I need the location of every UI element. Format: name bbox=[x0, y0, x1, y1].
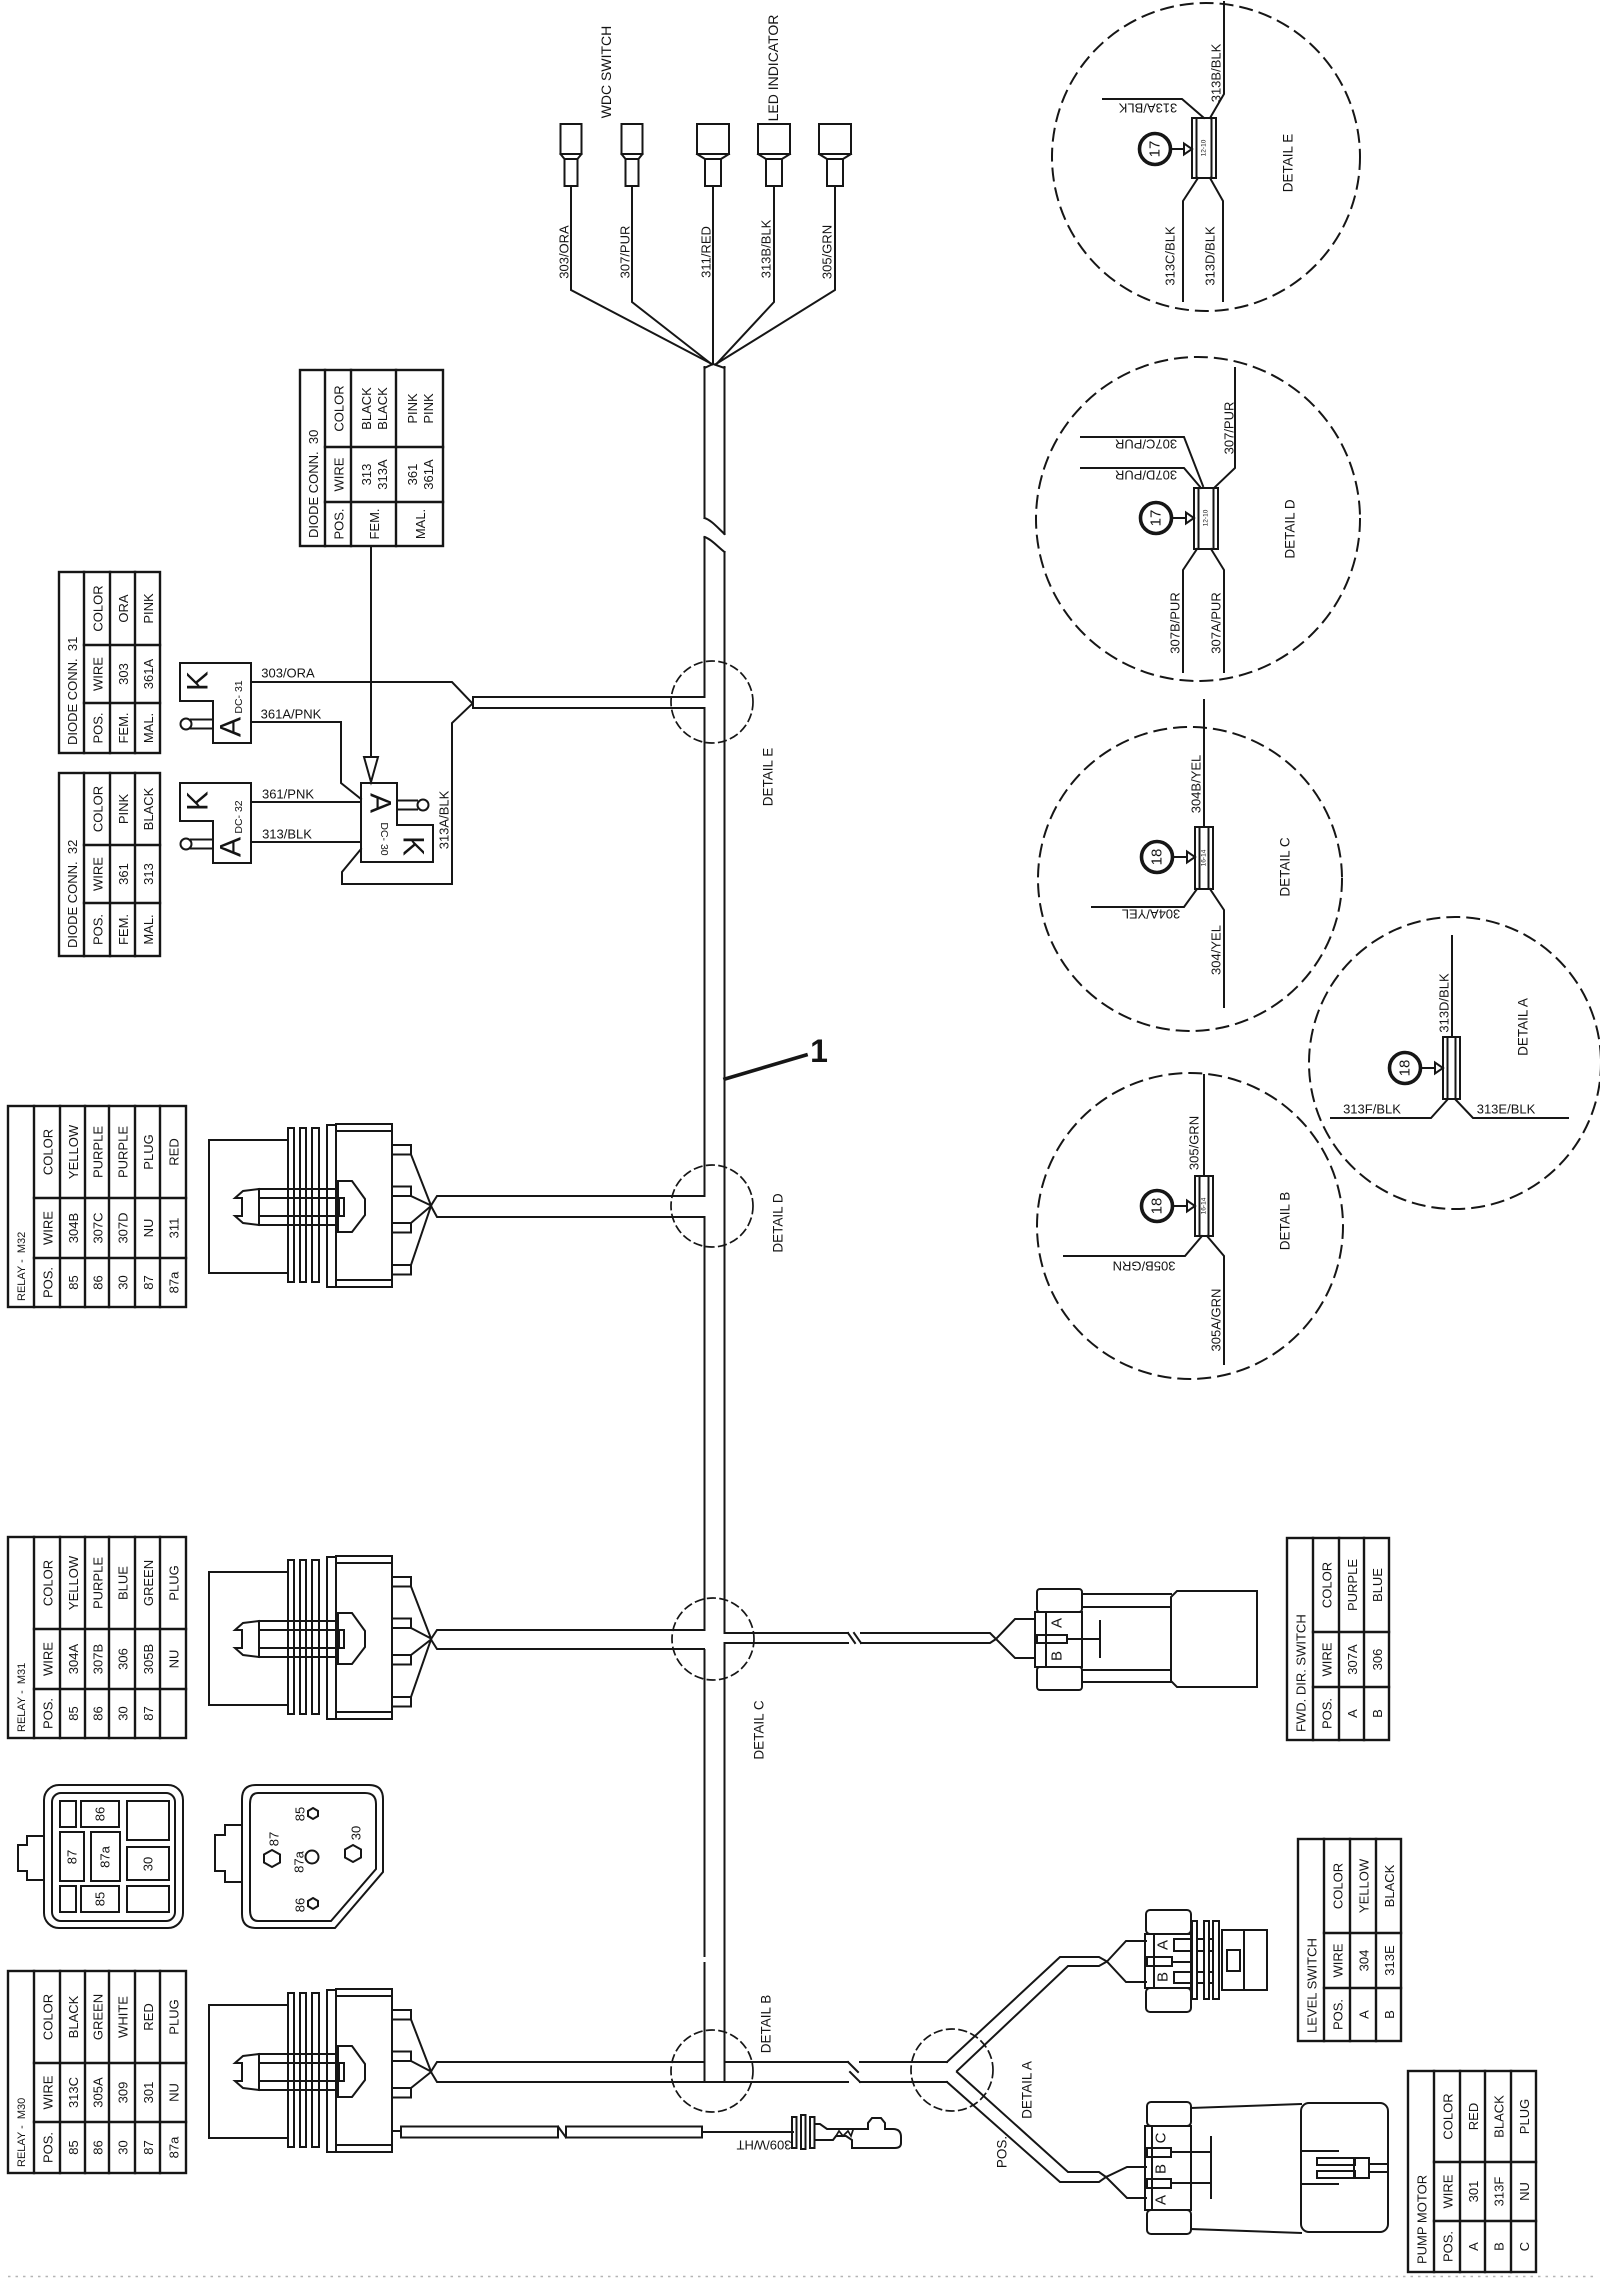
svg-text:306: 306 bbox=[1370, 1649, 1385, 1671]
splice 12-10 (detail E) bbox=[1192, 118, 1216, 178]
V-split into pump motor pins bbox=[1106, 2167, 1146, 2198]
svg-text:313: 313 bbox=[141, 863, 156, 885]
splice 16-14 (detail B) bbox=[1195, 1176, 1213, 1236]
wires from relay M31 to branch point bbox=[392, 1577, 431, 1707]
label DETAIL C (trunk) bbox=[752, 1700, 767, 1760]
svg-text:30: 30 bbox=[349, 1826, 364, 1840]
svg-text:COLOR: COLOR bbox=[41, 1129, 56, 1175]
connector terminal 311/RED bbox=[697, 124, 729, 186]
wire 305/GRN to trunk bbox=[716, 186, 835, 364]
label 313D/BLK (detail E) bbox=[1203, 226, 1218, 286]
svg-text:WDC SWITCH: WDC SWITCH bbox=[598, 26, 614, 119]
svg-text:361/PNK: 361/PNK bbox=[262, 787, 314, 802]
svg-text:RELAY - M31: RELAY - M31 bbox=[16, 1663, 28, 1732]
svg-text:WIRE: WIRE bbox=[1320, 1642, 1335, 1676]
diode connector DC-31 bbox=[180, 663, 251, 743]
relay connector M32 (side view) bbox=[209, 1124, 392, 1287]
svg-text:313B/BLK: 313B/BLK bbox=[759, 219, 774, 278]
svg-text:PURPLE: PURPLE bbox=[91, 1126, 106, 1178]
svg-text:COLOR: COLOR bbox=[1441, 2093, 1456, 2139]
svg-text:307A/PUR: 307A/PUR bbox=[1209, 592, 1224, 653]
svg-text:A: A bbox=[364, 793, 397, 813]
svg-text:305B/GRN: 305B/GRN bbox=[1113, 1259, 1176, 1274]
svg-text:307D: 307D bbox=[116, 1212, 131, 1243]
svg-text:304A/YEL: 304A/YEL bbox=[1122, 907, 1181, 922]
svg-text:WIRE: WIRE bbox=[1331, 1943, 1346, 1977]
svg-text:18: 18 bbox=[1397, 1060, 1414, 1077]
relay connector M31 (side view) bbox=[209, 1556, 392, 1719]
svg-text:313: 313 bbox=[359, 464, 374, 486]
svg-text:303/ORA: 303/ORA bbox=[261, 666, 315, 681]
wire 313F/BLK (detail A) bbox=[1331, 1099, 1448, 1118]
callout leader line 1 bbox=[725, 1055, 806, 1079]
terminal pin of DC-30 bbox=[397, 800, 429, 811]
svg-text:304/YEL: 304/YEL bbox=[1209, 925, 1224, 975]
wire 307A/PUR (detail D) bbox=[1211, 549, 1224, 672]
svg-text:DETAIL C: DETAIL C bbox=[1278, 837, 1293, 897]
svg-text:COLOR: COLOR bbox=[332, 385, 347, 431]
svg-text:GREEN: GREEN bbox=[141, 1560, 156, 1606]
trunk break symbol (upper) bbox=[705, 518, 725, 552]
svg-text:85: 85 bbox=[66, 2140, 81, 2154]
wire 307/PUR (detail D) bbox=[1214, 368, 1235, 488]
svg-text:WIRE: WIRE bbox=[91, 657, 106, 691]
svg-text:301: 301 bbox=[141, 2082, 156, 2104]
svg-text:LEVEL SWITCH: LEVEL SWITCH bbox=[1305, 1938, 1320, 2033]
harness trunk (double line with breaks) bbox=[705, 364, 725, 2082]
svg-text:K: K bbox=[182, 671, 215, 691]
svg-text:WHITE: WHITE bbox=[116, 1996, 131, 2038]
svg-text:RED: RED bbox=[141, 2003, 156, 2030]
svg-text:361A/PNK: 361A/PNK bbox=[261, 707, 322, 722]
svg-text:PURPLE: PURPLE bbox=[116, 1126, 131, 1178]
svg-text:A: A bbox=[215, 837, 248, 857]
label WDC SWITCH bbox=[598, 26, 614, 119]
svg-text:87: 87 bbox=[65, 1850, 80, 1864]
svg-text:DETAIL D: DETAIL D bbox=[1283, 499, 1298, 559]
connector terminal 313B/BLK (LED indicator) bbox=[758, 124, 790, 186]
svg-text:87a: 87a bbox=[167, 1271, 182, 1293]
diode connector DC-32 bbox=[180, 783, 251, 863]
svg-text:A: A bbox=[215, 717, 248, 737]
svg-text:DETAIL E: DETAIL E bbox=[1281, 134, 1296, 193]
V-split into level switch pins bbox=[1107, 1941, 1146, 1982]
wires fwd dir switch to boot bbox=[1082, 1594, 1171, 1682]
junction circle DETAIL B (trunk) bbox=[671, 2030, 753, 2112]
svg-text:311: 311 bbox=[167, 1218, 182, 1239]
label 313B/BLK bbox=[759, 219, 774, 278]
svg-text:PUMP MOTOR: PUMP MOTOR bbox=[1415, 2175, 1430, 2264]
svg-text:FEM.: FEM. bbox=[116, 914, 131, 945]
V-split into fwd dir switch pins bbox=[996, 1619, 1035, 1658]
boot of fwd dir switch connector bbox=[1171, 1591, 1257, 1687]
svg-text:NU: NU bbox=[141, 1219, 156, 1238]
svg-text:POS.: POS. bbox=[1331, 1999, 1346, 2030]
arrow 18 to splice (detail B) bbox=[1173, 1201, 1196, 1212]
svg-text:C: C bbox=[1517, 2242, 1532, 2251]
svg-text:309/WHT: 309/WHT bbox=[736, 2138, 791, 2153]
label 307A/PUR (detail D) bbox=[1209, 592, 1224, 653]
svg-text:FEM.: FEM. bbox=[116, 712, 131, 743]
svg-text:DETAIL A: DETAIL A bbox=[1020, 2061, 1035, 2119]
svg-text:87a: 87a bbox=[167, 2136, 182, 2158]
svg-text:1: 1 bbox=[810, 1033, 828, 1069]
terminal pin of DC-32 bbox=[181, 839, 214, 850]
table RELAY - M32 bbox=[8, 1106, 186, 1307]
svg-text:361: 361 bbox=[116, 863, 131, 885]
svg-text:307A: 307A bbox=[1345, 1644, 1360, 1675]
svg-text:DIODE CONN. 30: DIODE CONN. 30 bbox=[306, 430, 321, 538]
svg-text:BLUE: BLUE bbox=[116, 1566, 131, 1600]
label 311/RED bbox=[699, 226, 714, 278]
svg-text:313F/BLK: 313F/BLK bbox=[1343, 1102, 1401, 1117]
svg-text:PINK: PINK bbox=[421, 393, 436, 424]
label 304A/YEL (detail C) bbox=[1122, 907, 1181, 922]
svg-text:304A: 304A bbox=[66, 1643, 81, 1674]
svg-text:POS.: POS. bbox=[1441, 2231, 1456, 2262]
label 313B/BLK (detail E) bbox=[1209, 43, 1224, 102]
table PUMP MOTOR bbox=[1408, 2071, 1536, 2272]
svg-text:A: A bbox=[1049, 1618, 1066, 1628]
svg-text:87: 87 bbox=[267, 1832, 282, 1846]
table RELAY - M31 bbox=[8, 1537, 186, 1738]
svg-text:DETAIL D: DETAIL D bbox=[771, 1193, 786, 1253]
wire 304/YEL (detail C) bbox=[1210, 889, 1224, 1007]
svg-text:B: B bbox=[1049, 1651, 1066, 1661]
svg-text:86: 86 bbox=[91, 1706, 106, 1720]
svg-text:313E/BLK: 313E/BLK bbox=[1477, 1102, 1536, 1117]
svg-text:YELLOW: YELLOW bbox=[1357, 1858, 1372, 1913]
label DETAIL B (circle) bbox=[1278, 1192, 1293, 1251]
label 313/BLK bbox=[262, 827, 312, 842]
svg-text:POS.: POS. bbox=[41, 1267, 56, 1298]
svg-text:87a: 87a bbox=[292, 1850, 307, 1872]
table DIODE CONN. 30 bbox=[300, 370, 443, 546]
svg-text:307C/PUR: 307C/PUR bbox=[1115, 437, 1177, 452]
svg-text:86: 86 bbox=[91, 1275, 106, 1289]
relay connector M30 (side view) bbox=[209, 1989, 392, 2152]
wire 305A/GRN (detail B) bbox=[1207, 1236, 1224, 1364]
svg-text:304B/YEL: 304B/YEL bbox=[1189, 755, 1204, 814]
connector terminal 307/PUR (WDC switch) bbox=[622, 124, 643, 186]
label LED INDICATOR bbox=[765, 15, 781, 122]
wire 313/BLK from DC-32 to DC-30 bbox=[251, 841, 361, 843]
svg-text:LED INDICATOR: LED INDICATOR bbox=[765, 15, 781, 122]
svg-text:313E: 313E bbox=[1382, 1945, 1397, 1976]
ring terminal on 309/WHT bbox=[792, 2115, 901, 2149]
wire 313B/BLK to trunk bbox=[716, 186, 774, 365]
wire 303/ORA to trunk bbox=[571, 186, 712, 364]
svg-text:BLUE: BLUE bbox=[1370, 1568, 1385, 1602]
label 303/ORA bbox=[557, 225, 572, 279]
svg-text:WIRE: WIRE bbox=[41, 1211, 56, 1245]
svg-text:305/GRN: 305/GRN bbox=[1187, 1116, 1202, 1170]
svg-text:A: A bbox=[1153, 2195, 1170, 2205]
callout circle 17 (detail E) bbox=[1140, 134, 1171, 165]
branch wire relay M32 to DETAIL D junction bbox=[431, 1196, 704, 1217]
wires from relay M30 to branch point bbox=[392, 2010, 431, 2098]
label 305A/GRN (detail B) bbox=[1209, 1289, 1224, 1352]
detail circle E (dashed) bbox=[1052, 3, 1360, 311]
svg-text:306: 306 bbox=[116, 1648, 131, 1670]
label DETAIL D (trunk) bbox=[771, 1193, 786, 1253]
svg-text:MAL.: MAL. bbox=[141, 914, 156, 944]
svg-text:B: B bbox=[1153, 2164, 1170, 2174]
svg-text:30: 30 bbox=[116, 1706, 131, 1720]
callout circle 17 (detail D) bbox=[1141, 503, 1172, 534]
svg-text:NU: NU bbox=[1517, 2182, 1532, 2201]
svg-text:313B/BLK: 313B/BLK bbox=[1209, 43, 1224, 102]
svg-text:B: B bbox=[1370, 1709, 1385, 1718]
svg-text:WIRE: WIRE bbox=[1441, 2174, 1456, 2208]
svg-text:MAL.: MAL. bbox=[413, 509, 428, 539]
svg-text:MAL.: MAL. bbox=[141, 713, 156, 743]
svg-text:WIRE: WIRE bbox=[91, 857, 106, 891]
svg-text:307B: 307B bbox=[91, 1644, 106, 1674]
svg-text:307/PUR: 307/PUR bbox=[618, 226, 633, 279]
svg-text:A: A bbox=[1345, 1709, 1360, 1718]
wire 313B/BLK (detail E) bbox=[1210, 2, 1224, 118]
wire 361A/PNK from DC-31 to DC-30 bbox=[251, 722, 361, 799]
svg-text:RELAY - M30: RELAY - M30 bbox=[16, 2098, 28, 2167]
label 309/WHT bbox=[736, 2138, 791, 2153]
svg-text:305B: 305B bbox=[141, 1644, 156, 1674]
svg-text:COLOR: COLOR bbox=[91, 786, 106, 832]
svg-text:PINK: PINK bbox=[116, 794, 131, 825]
svg-text:WIRE: WIRE bbox=[332, 457, 347, 491]
branch wire relay M30 to DETAIL B junction bbox=[431, 2062, 848, 2082]
label 313E/BLK (detail A) bbox=[1477, 1102, 1536, 1117]
junction circle DETAIL C bbox=[672, 1598, 754, 1680]
label POS. bbox=[995, 2136, 1010, 2168]
wire 313C/BLK (detail E) bbox=[1183, 178, 1198, 301]
svg-text:DC- 31: DC- 31 bbox=[233, 680, 245, 713]
svg-text:RED: RED bbox=[1466, 2103, 1481, 2130]
wire 313A/BLK from DC-30 to junction bbox=[342, 704, 472, 884]
wire 313A/BLK (detail E) bbox=[1103, 99, 1204, 118]
splice (detail A) bbox=[1443, 1037, 1460, 1099]
svg-text:18: 18 bbox=[1149, 1198, 1166, 1215]
svg-text:PINK: PINK bbox=[405, 393, 420, 424]
svg-text:313C: 313C bbox=[66, 2077, 81, 2108]
arrow 18 to splice (detail A) bbox=[1421, 1063, 1444, 1074]
branch wire DETAIL B junction to Y-split (with break) bbox=[725, 2062, 947, 2082]
label 307D/PUR (detail D) bbox=[1115, 468, 1177, 483]
svg-text:85: 85 bbox=[66, 1275, 81, 1289]
callout circle 18 (detail C) bbox=[1142, 842, 1173, 873]
svg-text:WIRE: WIRE bbox=[41, 1642, 56, 1676]
junction circle DETAIL E bbox=[671, 661, 753, 743]
svg-text:POS.: POS. bbox=[91, 914, 106, 945]
svg-text:30: 30 bbox=[116, 2140, 131, 2154]
svg-text:BLACK: BLACK bbox=[66, 1995, 81, 2038]
leader arrow from DIODE CONN. 30 table to DC-30 bbox=[364, 546, 378, 782]
table RELAY - M30 bbox=[8, 1971, 186, 2173]
svg-text:12-10: 12-10 bbox=[1201, 139, 1208, 156]
svg-text:313D/BLK: 313D/BLK bbox=[1437, 973, 1452, 1033]
svg-text:DETAIL B: DETAIL B bbox=[759, 1995, 774, 2054]
arrow 17 to splice (detail E) bbox=[1171, 144, 1193, 155]
label DETAIL C (circle) bbox=[1278, 837, 1293, 897]
svg-text:POS.: POS. bbox=[41, 1698, 56, 1729]
svg-text:313A/BLK: 313A/BLK bbox=[437, 790, 452, 849]
svg-text:307/PUR: 307/PUR bbox=[1222, 402, 1237, 455]
svg-text:B: B bbox=[1492, 2242, 1507, 2251]
svg-text:361: 361 bbox=[405, 464, 420, 486]
svg-text:DETAIL C: DETAIL C bbox=[752, 1700, 767, 1760]
connector FWD. DIR. SWITCH bbox=[1035, 1589, 1100, 1690]
svg-text:PINK: PINK bbox=[141, 593, 156, 624]
svg-text:313F: 313F bbox=[1492, 2177, 1507, 2207]
label 307C/PUR (detail D) bbox=[1115, 437, 1177, 452]
branch wire to DETAIL E junction bbox=[473, 697, 704, 708]
wires from relay M32 to branch point bbox=[392, 1145, 431, 1275]
wire 309/WHT from relay M30 bbox=[392, 2127, 793, 2138]
svg-text:DETAIL E: DETAIL E bbox=[761, 748, 776, 807]
svg-text:87: 87 bbox=[141, 1275, 156, 1289]
wire 307/PUR to trunk bbox=[632, 186, 712, 365]
svg-text:313C/BLK: 313C/BLK bbox=[1163, 226, 1178, 286]
svg-text:16-14: 16-14 bbox=[1201, 1197, 1208, 1214]
svg-text:BLACK: BLACK bbox=[141, 787, 156, 830]
svg-text:301: 301 bbox=[1466, 2181, 1481, 2203]
arrow 17 to splice (detail D) bbox=[1172, 513, 1195, 524]
svg-text:18: 18 bbox=[1149, 849, 1166, 866]
svg-text:WIRE: WIRE bbox=[41, 2075, 56, 2109]
svg-text:DC- 30: DC- 30 bbox=[378, 822, 390, 855]
label 307B/PUR (detail D) bbox=[1168, 592, 1183, 653]
svg-text:87: 87 bbox=[141, 2140, 156, 2154]
svg-text:COLOR: COLOR bbox=[1331, 1863, 1346, 1909]
svg-text:PLUG: PLUG bbox=[141, 1134, 156, 1169]
svg-text:313A/BLK: 313A/BLK bbox=[1118, 101, 1177, 116]
label 313A/BLK (detail E) bbox=[1118, 101, 1177, 116]
svg-text:304B: 304B bbox=[66, 1213, 81, 1243]
svg-text:DC- 32: DC- 32 bbox=[233, 800, 245, 833]
wire 313D/BLK (detail A) bbox=[1451, 936, 1453, 1037]
wire 307D/PUR (detail D) bbox=[1081, 468, 1201, 488]
table LEVEL SWITCH bbox=[1298, 1839, 1401, 2041]
branch wire relay M31 to DETAIL C junction bbox=[431, 1630, 704, 1649]
wire 361/PNK from DC-32 to DC-30 bbox=[251, 801, 361, 803]
svg-text:30: 30 bbox=[116, 1275, 131, 1289]
svg-text:305A/GRN: 305A/GRN bbox=[1209, 1289, 1224, 1352]
svg-text:307B/PUR: 307B/PUR bbox=[1168, 592, 1183, 653]
svg-text:FEM.: FEM. bbox=[367, 508, 382, 539]
svg-text:DIODE CONN. 32: DIODE CONN. 32 bbox=[65, 840, 80, 948]
svg-text:BLACK: BLACK bbox=[1492, 2095, 1507, 2138]
wire 304B/YEL (detail C) bbox=[1203, 700, 1205, 827]
svg-text:YELLOW: YELLOW bbox=[66, 1555, 81, 1610]
svg-text:B: B bbox=[1155, 1972, 1172, 1982]
svg-text:RELAY - M32: RELAY - M32 bbox=[16, 1232, 28, 1301]
svg-text:16-14: 16-14 bbox=[1201, 849, 1208, 866]
svg-text:FWD. DIR. SWITCH: FWD. DIR. SWITCH bbox=[1294, 1614, 1309, 1732]
label DETAIL A (harness) bbox=[1020, 2061, 1035, 2119]
svg-text:PLUG: PLUG bbox=[1517, 2099, 1532, 2134]
connector PUMP MOTOR bbox=[1145, 2102, 1388, 2234]
svg-text:DETAIL B: DETAIL B bbox=[1278, 1192, 1293, 1251]
svg-text:C: C bbox=[1153, 2132, 1170, 2143]
label 305/GRN bbox=[820, 225, 835, 279]
svg-text:PLUG: PLUG bbox=[167, 1999, 182, 2034]
svg-text:304: 304 bbox=[1357, 1950, 1372, 1972]
wire 307B/PUR (detail D) bbox=[1183, 549, 1197, 672]
svg-text:K: K bbox=[182, 791, 215, 811]
table DIODE CONN. 32 bbox=[59, 773, 160, 956]
splice 16-14 (detail C) bbox=[1195, 827, 1213, 889]
svg-text:GREEN: GREEN bbox=[91, 1994, 106, 2040]
wire 305B/GRN (detail B) bbox=[1064, 1236, 1202, 1256]
relay socket cavity view (86/87a/85/87/30) bbox=[18, 1785, 183, 1928]
svg-text:PURPLE: PURPLE bbox=[91, 1557, 106, 1609]
svg-text:POS.: POS. bbox=[995, 2136, 1010, 2168]
Y-split lower wire to pump motor bbox=[947, 2072, 1106, 2182]
wire 304A/YEL (detail C) bbox=[1092, 889, 1197, 907]
svg-text:305/GRN: 305/GRN bbox=[820, 225, 835, 279]
svg-text:86: 86 bbox=[93, 1807, 108, 1821]
svg-text:313D/BLK: 313D/BLK bbox=[1203, 226, 1218, 286]
connector LEVEL SWITCH bbox=[1145, 1910, 1267, 2012]
detail circle C (dashed) bbox=[1038, 727, 1342, 1031]
svg-text:313/BLK: 313/BLK bbox=[262, 827, 312, 842]
svg-text:YELLOW: YELLOW bbox=[66, 1124, 81, 1179]
svg-text:COLOR: COLOR bbox=[41, 1560, 56, 1606]
svg-text:PURPLE: PURPLE bbox=[1345, 1559, 1360, 1611]
label 304B/YEL (detail C) bbox=[1189, 755, 1204, 814]
label 303/ORA (diode) bbox=[261, 666, 315, 681]
Y-split upper wire to level switch bbox=[947, 1957, 1107, 2071]
wire 313D/BLK (detail E) bbox=[1210, 178, 1223, 301]
svg-text:DIODE CONN. 31: DIODE CONN. 31 bbox=[65, 637, 80, 745]
svg-text:POS.: POS. bbox=[1320, 1698, 1335, 1729]
label DETAIL E (circle) bbox=[1281, 134, 1296, 193]
svg-text:DETAIL A: DETAIL A bbox=[1516, 998, 1531, 1056]
svg-text:307C: 307C bbox=[91, 1212, 106, 1243]
svg-text:BLACK: BLACK bbox=[375, 387, 390, 430]
label DETAIL E (trunk) bbox=[761, 748, 776, 807]
label 305B/GRN (detail B) bbox=[1113, 1259, 1176, 1274]
svg-text:361A: 361A bbox=[421, 459, 436, 490]
svg-text:311/RED: 311/RED bbox=[699, 226, 714, 278]
svg-text:A: A bbox=[1155, 1940, 1172, 1950]
svg-text:ORA: ORA bbox=[116, 594, 131, 623]
terminal pin of DC-31 bbox=[181, 719, 214, 730]
svg-text:361A: 361A bbox=[141, 658, 156, 689]
splice 12-10 (detail D) bbox=[1194, 488, 1218, 549]
svg-text:BLACK: BLACK bbox=[359, 387, 374, 430]
svg-text:17: 17 bbox=[1148, 510, 1165, 527]
svg-text:313A: 313A bbox=[375, 459, 390, 490]
detail circle B (dashed) bbox=[1037, 1073, 1343, 1379]
label DETAIL D (circle) bbox=[1283, 499, 1298, 559]
svg-text:NU: NU bbox=[167, 1650, 182, 1669]
label 307/PUR (detail D) bbox=[1222, 402, 1237, 455]
label 313C/BLK (detail E) bbox=[1163, 226, 1178, 286]
svg-text:305A: 305A bbox=[91, 2077, 106, 2108]
arrow 18 to splice (detail C) bbox=[1173, 852, 1196, 863]
callout circle 18 (detail B) bbox=[1142, 1191, 1173, 1222]
svg-text:COLOR: COLOR bbox=[1320, 1562, 1335, 1608]
svg-text:87a: 87a bbox=[98, 1845, 113, 1867]
junction circle DETAIL D bbox=[671, 1165, 753, 1247]
svg-text:85: 85 bbox=[66, 1706, 81, 1720]
svg-text:POS.: POS. bbox=[41, 2132, 56, 2163]
connector terminal 303/ORA bbox=[561, 124, 582, 186]
svg-text:RED: RED bbox=[167, 1138, 182, 1165]
junction circle DETAIL A (Y-split) bbox=[911, 2029, 993, 2111]
svg-text:86: 86 bbox=[293, 1898, 308, 1912]
